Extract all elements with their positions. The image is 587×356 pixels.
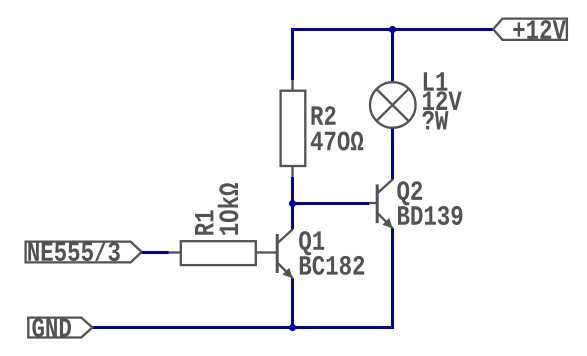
label NE555/3 — [28, 241, 120, 262]
resistor R1 — [169, 241, 277, 265]
label L1 — [424, 72, 448, 90]
value 10kohm (rotated) — [218, 183, 239, 235]
ground flag GND — [28, 318, 92, 338]
transistor Q1 — [277, 229, 293, 278]
value ?W — [422, 111, 448, 130]
label +12V — [513, 20, 566, 39]
lamp L1 — [370, 82, 416, 128]
transistor Q2 — [369, 180, 393, 229]
node junction at +12V rail and lamp branch — [389, 26, 396, 33]
node junction at Q1 emitter / GND rail — [289, 324, 296, 331]
value BD139 — [398, 206, 462, 225]
value 12V — [423, 91, 462, 110]
label R1 (rotated) — [195, 210, 213, 234]
wire lamp bottom to Q2 collector — [391, 129, 394, 180]
value 470ohm — [311, 132, 363, 151]
wire Q1 emitter to GND rail — [291, 278, 294, 327]
wire Q2 emitter down and bottom GND rail — [93, 228, 393, 327]
label Q1 — [299, 231, 324, 255]
wire NE555/3 flag to R1 — [142, 251, 169, 254]
value BC182 — [300, 256, 364, 275]
wire +12V rail from supply flag to corner down to R2 top — [293, 30, 494, 81]
supply flag +12V — [493, 19, 567, 40]
label Q2 — [397, 181, 422, 205]
node junction at Q1 collector / Q2 base branch — [289, 200, 296, 207]
wire R2 bottom to Q1 collector — [291, 177, 294, 229]
net flag NE555/3 — [26, 242, 142, 263]
wire lamp top to +12V rail — [391, 30, 394, 82]
label R2 — [312, 106, 336, 125]
label GND — [32, 318, 71, 337]
resistor R2 — [281, 80, 306, 177]
wire from node to Q2 base — [293, 202, 370, 205]
